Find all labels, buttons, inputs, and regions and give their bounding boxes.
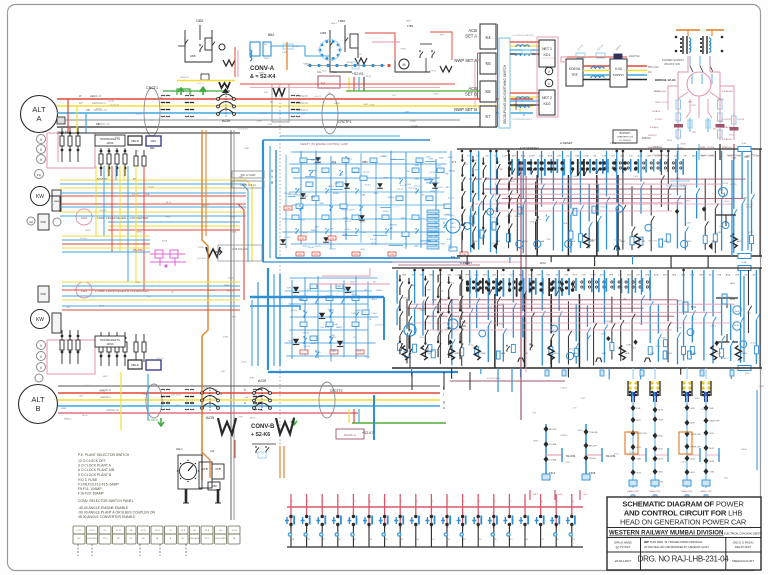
svg-text:8-CH-1: 8-CH-1 [136,114,143,116]
grid1 branch 10 [552,151,554,250]
svg-text:AND CONTROL CIRCUIT FOR LHB: AND CONTROL CIRCUIT FOR LHB [624,509,743,518]
svg-text:GEN3GL-W: GEN3GL-W [106,409,119,412]
svg-text:L4B-1: L4B-1 [245,397,251,399]
svg-text:GEN3GL2: GEN3GL2 [100,396,112,399]
svg-text:4L1-C2: 4L1-C2 [370,239,376,241]
svg-text:K1: K1 [463,539,465,541]
svg-text:(-2 POELVD63 68V): (-2 POELVD63 68V) [512,119,532,121]
svg-text:g: g [443,400,445,404]
svg-text:LAB: LAB [620,155,625,158]
svg-text:K4B3: K4B3 [631,347,637,349]
svg-text:1-K1 4L7G: 1-K1 4L7G [197,258,207,260]
svg-text:F5B: F5B [300,238,305,240]
pink wires into grid2 [322,268,370,276]
svg-text:1-K1 4L7G: 1-K1 4L7G [109,104,119,106]
breaker contacts group 3 [291,95,295,103]
svg-text:MCB: MCB [659,459,664,461]
svg-text:ACB: ACB [726,274,731,277]
grid2 bottom element 7 [566,352,573,359]
svg-text:2B-D2: 2B-D2 [250,418,257,420]
svg-text:B2: B2 [306,501,308,503]
converter A contacts blue [295,188,297,190]
grid1 bottom element 0 [468,242,475,250]
long dotted section line [279,84,281,462]
grid1 branch 4 [495,151,497,254]
supply chain 4 transformer top [701,381,704,384]
svg-text:T84L: T84L [374,193,378,195]
svg-text:AVR-2: AVR-2 [86,229,93,232]
small red marks right bottom [621,502,623,512]
svg-text:2B-D2: 2B-D2 [299,219,304,221]
svg-text:12-K43: 12-K43 [308,247,314,249]
grid1 distribution wire 4 [502,197,745,199]
aux circuit 13B2 top-left-centre [185,30,212,62]
svg-text:2CH: 2CH [540,261,546,265]
svg-text:LOP: LOP [392,95,397,97]
grid1 bottom element 6 [614,246,620,250]
converter A bottom bus [276,257,460,259]
svg-text:L4B-1: L4B-1 [491,243,497,245]
svg-text:B2: B2 [416,501,418,503]
coil bumps ribbon 2a [516,97,529,99]
grid2 branch 15 [531,270,533,348]
cyan riser [147,374,149,420]
5mOhm resistor 2 [683,302,688,312]
svg-text:4L1-C2: 4L1-C2 [363,172,369,174]
grid1 branch 18 [622,151,624,250]
svg-text:17B2: 17B2 [407,24,414,28]
svg-text:2B-D2: 2B-D2 [653,91,660,93]
svg-text:K-163 LOE(3): K-163 LOE(3) [487,378,501,380]
svg-text:ACB 4CF-4CF: ACB 4CF-4CF [232,248,248,251]
CFB box [212,464,224,479]
bridge mid blue stubs [689,118,691,132]
grid1 branch 2 [478,151,480,250]
converter block A mesh [285,155,287,249]
grid1 distribution wire 0 [469,178,746,180]
svg-text:KW: KW [36,194,44,200]
converter block B cells [291,280,293,359]
converter B rects [300,296,307,301]
svg-text:VDR: VDR [40,292,46,296]
svg-text:ACB: ACB [468,86,477,91]
svg-text:12B2A: 12B2A [718,98,725,101]
svg-text:L4B-1: L4B-1 [94,203,100,205]
svg-text:LMB: LMB [458,353,463,355]
green feeder bus B [352,422,446,424]
svg-text:K4B3: K4B3 [96,109,102,111]
converter A component rects blue [292,168,299,173]
svg-text:12-K43: 12-K43 [292,46,299,48]
svg-text:SMB3: SMB3 [334,103,340,105]
svg-text:KD2: KD2 [544,102,551,106]
svg-text:32KA: 32KA [731,156,737,159]
svg-text:HEAD ON GENERATION POWER CAR: HEAD ON GENERATION POWER CAR [620,518,746,527]
svg-text:ICHT: ICHT [652,241,657,243]
svg-text:2B-D2: 2B-D2 [751,155,758,157]
grid2 distribution wire 4 [425,315,674,317]
meter circle V1 [37,135,46,144]
grid2 bottom element 2 [449,346,455,360]
svg-text:1-EB7: 1-EB7 [223,337,229,339]
grid2 branch 1 [406,299,408,364]
grid1 stub 4 [632,256,634,264]
converter A diodes [315,157,321,161]
title col divider b [725,538,727,571]
svg-text:12-K43: 12-K43 [737,119,745,121]
MEL box [146,136,161,146]
grid1 branch 31 [741,151,743,251]
svg-text:AFB: AFB [737,240,742,243]
svg-text:MELR: MELR [131,139,138,143]
grid1 right-end frame [731,160,733,256]
svg-text:ICHT: ICHT [143,394,148,396]
bus Y phase ALT B [58,399,440,401]
svg-text:8-CH-1: 8-CH-1 [419,337,426,339]
red stub selector [234,440,236,458]
svg-text:8-CH-1: 8-CH-1 [430,172,436,174]
contactor box K4 [480,24,496,49]
grid2 bottom rail [392,367,762,369]
selector legs hatch [185,489,188,503]
svg-text:AVR-2: AVR-2 [331,22,338,25]
thick blue bus upper [250,296,384,298]
bridge pink wiring [678,92,688,99]
svg-text:CONV B REST: CONV B REST [214,538,228,540]
svg-text:12B2: 12B2 [320,31,327,35]
bus Y phase ALT A [57,105,533,107]
svg-text:K14-63: K14-63 [304,346,310,348]
svg-text:32KA: 32KA [198,246,204,249]
grid2 branch 17 [550,299,552,365]
VDR box B [52,313,61,333]
svg-text:RLL: RLL [332,70,337,74]
svg-text:TsD: TsD [566,156,570,158]
grid1 branch 11 [562,151,564,252]
svg-text:12B2A: 12B2A [229,215,236,218]
grid1 bottom element 10 [706,242,713,250]
grid2 bottom element 12 [688,351,692,359]
svg-text:F5B: F5B [354,254,359,256]
grid2 branch 12 [502,304,504,362]
grid1 stub 0 [466,256,468,265]
comb branch 15 [524,494,526,516]
ACB B breaker symbol [209,387,211,411]
svg-text:KD1: KD1 [544,53,551,57]
M motor circle grid2 [404,324,416,336]
svg-text:BLR: BLR [663,275,668,277]
supply chain 2 transformer top [650,381,653,384]
svg-text:9A-TIC: 9A-TIC [133,248,144,252]
dashed relay box mid [218,245,262,261]
svg-text:NWP SET B: NWP SET B [454,107,477,112]
svg-text:AFB: AFB [190,54,196,58]
svg-text:8-CH-1: 8-CH-1 [261,113,268,115]
svg-text:AFB: AFB [501,352,506,355]
svg-text:I D 1 1: I D 1 1 [653,145,661,149]
svg-text:LOP: LOP [678,327,683,329]
svg-text:LMB: LMB [530,222,535,224]
grid1 bottom element 2 [516,240,523,247]
svg-text:QOP: QOP [427,353,432,355]
svg-text:GFB2: GFB2 [507,216,513,218]
svg-text:12-K43: 12-K43 [471,214,478,216]
svg-text:32KA: 32KA [257,120,263,123]
svg-text:ICHT: ICHT [647,156,653,158]
net meters pink outline [537,37,558,117]
fan motor M [399,59,409,69]
svg-text:12-K43: 12-K43 [431,182,437,184]
svg-text:ICHT: ICHT [710,156,716,158]
svg-text:VDR: VDR [40,220,46,224]
fuse column bank B3 [135,334,137,362]
svg-text:NMB(2): NMB(2) [515,216,522,218]
svg-text:BLR: BLR [668,353,672,355]
svg-text:32KA: 32KA [99,304,105,307]
svg-text:12-K43: 12-K43 [429,71,436,73]
svg-text:32KA: 32KA [325,296,330,299]
selector rotary dial [180,463,197,480]
ribbon to NET2 [510,92,539,94]
svg-text:CONV-B: CONV-B [251,424,275,430]
svg-text:SMB3: SMB3 [356,310,361,312]
svg-text:1-EB7: 1-EB7 [364,356,369,358]
comb branch 0 [290,494,292,528]
inter-grid pink links [392,261,520,263]
svg-text:L4B-1: L4B-1 [314,226,319,228]
svg-text:B2: B2 [509,501,511,503]
fuse column bank A3 [135,150,137,174]
svg-text:MCB: MCB [691,458,696,460]
title divider 2 [607,537,761,539]
svg-text:8L: 8L [339,539,341,541]
ribbon KOEVA to K44 [583,65,610,67]
grid2 left contact columns [399,275,401,355]
grid1 branch 24 [676,151,678,248]
svg-text:K4: K4 [485,35,491,40]
green arrow down B2 [291,417,297,425]
svg-text:MP-OFF: MP-OFF [549,429,557,431]
svg-text:SMB3: SMB3 [533,441,539,443]
svg-text:GFB2: GFB2 [363,104,369,106]
svg-text:7a2: 7a2 [210,449,215,453]
svg-text:LMB: LMB [743,197,748,199]
svg-text:32KA: 32KA [115,136,121,139]
isolation dashed box [272,84,289,122]
svg-text:2B-D2: 2B-D2 [468,344,475,346]
grid2 diamond bank [466,282,469,285]
block B left feeder verticals [251,300,253,366]
supply chain 2 riser to grid2 [654,368,656,379]
svg-text:8-CH-1: 8-CH-1 [448,198,454,200]
svg-text:L4B-1: L4B-1 [710,326,716,328]
contacts ALTB 1 [161,389,165,397]
KW connection lines [49,196,60,212]
supply chain 4 chain [705,396,707,488]
grid2 branch 16 [541,270,543,366]
grid1 branch 22 [660,151,662,207]
svg-text:K2C: K2C [464,164,469,166]
svg-text:KAMP-OFF: KAMP-OFF [627,490,639,493]
svg-text:D4B: D4B [637,408,642,410]
filter loop wire blue [271,46,330,56]
svg-text:4L1-C2: 4L1-C2 [414,186,420,188]
grid2 branch 4 [432,270,434,329]
svg-text:1-K1 4L7G: 1-K1 4L7G [171,395,181,397]
ADR box B [38,286,49,302]
svg-text:12B2A: 12B2A [718,189,725,192]
svg-text:32KA: 32KA [316,157,321,160]
MELR box B [128,360,142,369]
thick blue bus lower step [250,306,300,310]
svg-text:T2 04: T2 04 [231,530,237,532]
svg-text:12-K43: 12-K43 [108,101,115,103]
svg-text:K4R: K4R [650,353,654,355]
svg-text:SCHEMATIC DIAGRAM OF POWER: SCHEMATIC DIAGRAM OF POWER [622,500,744,509]
svg-text:GFB: GFB [609,275,614,277]
svg-text:L4B-1: L4B-1 [360,249,365,251]
comb branch 14 [508,494,510,516]
svg-text:C4: C4 [370,539,372,541]
svg-text:HDH: HDH [744,156,749,159]
svg-text:K14-63: K14-63 [560,388,567,390]
svg-text:1-EB7: 1-EB7 [404,111,410,113]
supply chain 4 pink loop [706,448,719,455]
transducer box [95,135,125,146]
S2-K7 bundle [348,409,350,423]
grid2 bottom element 3 [474,346,480,360]
aux resistor W top [223,60,235,66]
svg-text:C4: C4 [573,539,575,541]
svg-text:GFB2: GFB2 [414,165,419,167]
grid1 bottom element 8 [659,239,663,247]
svg-text:JSL: JSL [353,337,356,339]
svg-text:SMB3: SMB3 [259,73,265,75]
green earthing bracket [177,89,190,95]
bus earth ALT A [57,126,497,128]
bus drops to NET2 KD2 [515,99,517,110]
svg-text:GRID = 12-41: GRID = 12-41 [655,102,669,104]
svg-text:YB: YB [96,122,100,126]
svg-text:BLR: BLR [554,353,558,355]
svg-text:CPB: CPB [564,275,569,277]
svg-text:9 O CLOCK PLANT B: 9 O CLOCK PLANT B [78,473,112,477]
svg-text:K-B: K-B [602,156,606,158]
bridge extra pink wiring [678,56,688,72]
svg-text:NMB(2): NMB(2) [208,290,215,292]
svg-text:1-EB7: 1-EB7 [351,313,356,315]
svg-text:4L1-C2: 4L1-C2 [314,96,321,98]
svg-text:K4B3: K4B3 [316,352,321,354]
svg-text:NMB(2): NMB(2) [294,195,301,197]
svg-text:K14-63: K14-63 [303,332,309,334]
svg-text:2 D 3: 2 D 3 [205,538,210,540]
svg-text:L4B-1: L4B-1 [372,313,377,315]
vertical colour drops left [95,166,97,236]
svg-text:LOP: LOP [636,275,641,277]
svg-text:AVR-2: AVR-2 [347,157,352,160]
F11 fuse [449,247,457,251]
svg-text:JSL: JSL [340,174,343,176]
svg-text:F11: F11 [451,255,456,259]
svg-text:F1 2C: F1 2C [76,530,82,532]
grid1 branch 1 [470,151,472,252]
svg-text:TMB3: TMB3 [522,241,528,243]
svg-text:8-CH-1: 8-CH-1 [303,246,309,248]
svg-text:MEL: MEL [150,147,156,150]
battery circle [446,219,460,233]
green arrow 2 [200,88,206,95]
green feeder bus [346,90,480,92]
converter block B frame [267,268,269,370]
svg-text:K4B3: K4B3 [414,178,419,180]
grid1 bottom element 7 [635,234,641,248]
grid1 branch 8 [535,182,537,250]
svg-text:SMB3: SMB3 [420,310,426,312]
meter circle small [53,218,61,226]
svg-text:B2: B2 [525,501,527,503]
svg-text:BLR: BLR [474,241,478,243]
svg-text:BLR: BLR [692,156,697,158]
svg-text:NMB(2): NMB(2) [561,435,568,437]
grid2 branch 22 [593,270,595,366]
svg-text:AVR-2: AVR-2 [727,296,734,299]
orange supply wires [676,29,700,31]
svg-text:D2KD: D2KD [392,224,398,226]
svg-text:K14-63: K14-63 [497,324,504,326]
grid2 bottom element 0 [402,346,408,360]
grid2 bottom element 6 [548,346,554,360]
svg-text:+ S2-K6: + S2-K6 [251,432,270,438]
title block outer [607,497,761,570]
svg-text:D1: D1 [400,501,402,503]
grid1 branch 0 [461,178,463,253]
svg-text:K6: K6 [485,89,491,94]
sensor dot chain top [307,65,385,67]
svg-text:GFB2: GFB2 [445,329,451,331]
meter circle V2 [37,145,46,154]
svg-text:8-CH-1: 8-CH-1 [182,99,189,101]
svg-text:F1 2C: F1 2C [141,530,147,532]
svg-text:NMB(2): NMB(2) [302,196,309,198]
svg-text:1-K1 4L7G: 1-K1 4L7G [238,129,248,131]
comb branch 10 [446,494,448,528]
supply chain 1 transformer top [628,381,631,384]
svg-text:K4B3: K4B3 [343,289,348,291]
contacts ALTB 2 [185,389,189,397]
svg-text:1-2Q2F-DD2: 1-2Q2F-DD2 [542,58,555,60]
terminal strip row [73,526,85,534]
grid2 branch 30 [667,270,669,362]
bus B phase ALT B [58,405,440,407]
grid1 tall black verticals [536,175,538,256]
svg-text:1-GBL-W: 1-GBL-W [196,83,204,85]
converter A red fuse labels [298,236,306,240]
svg-text:GFB2: GFB2 [319,203,324,205]
svg-text:BLR: BLR [664,241,668,243]
svg-text:C4: C4 [479,539,481,541]
comb branch 2 [321,494,323,516]
svg-text:T84L: T84L [331,335,335,337]
relay chain TR A [545,424,547,476]
svg-text:B: B [35,404,40,413]
GC-GN circle grid2 [448,319,458,329]
svg-text:GFB2: GFB2 [759,386,765,388]
grid2 branch 27 [640,270,642,325]
svg-text:J-OFF: J-OFF [655,156,662,158]
alternator ALT A [21,96,58,133]
svg-text:4L1-C2: 4L1-C2 [132,194,139,196]
